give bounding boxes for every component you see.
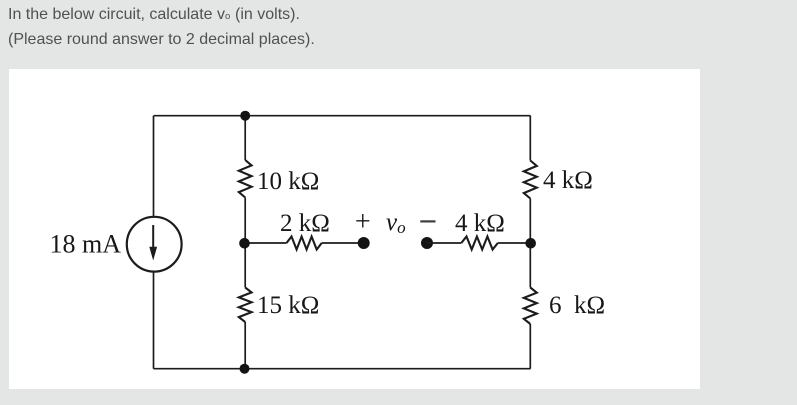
- node bottom junction: [240, 364, 250, 374]
- svg-text:6 kΩ: 6 kΩ: [549, 292, 605, 319]
- wire middle branch center: [244, 198, 246, 288]
- svg-text:18 mA: 18 mA: [50, 230, 122, 259]
- svg-text:15 kΩ: 15 kΩ: [257, 292, 319, 319]
- wire right branch center: [529, 199, 531, 288]
- svg-text:4 kΩ: 4 kΩ: [543, 167, 593, 194]
- wire middle branch lower: [244, 322, 246, 369]
- wire left upper: [153, 116, 155, 217]
- wire left lower: [153, 272, 155, 369]
- resistor R4 6 kΩ: [524, 288, 537, 325]
- wire node b to 4k: [427, 242, 461, 244]
- current source I1 18 mA: [127, 217, 182, 272]
- resistor R3 4 kΩ: [524, 161, 537, 199]
- wire top: [154, 115, 531, 117]
- wire middle branch upper: [244, 116, 246, 160]
- svg-text:vo: vo: [386, 209, 406, 237]
- label minus: [420, 220, 435, 222]
- node middle-left junction: [239, 238, 250, 249]
- svg-text:10 kΩ: 10 kΩ: [257, 168, 319, 195]
- resistor R1 10 kΩ: [239, 160, 252, 198]
- node middle-right junction: [525, 238, 536, 249]
- svg-text:2 kΩ: 2 kΩ: [280, 210, 330, 237]
- node b terminal: [421, 237, 433, 249]
- wire middle row left: [245, 242, 286, 244]
- wire 4k to right branch: [498, 242, 531, 244]
- resistor R6 4 kΩ: [461, 237, 498, 250]
- wire right branch lower: [529, 324, 531, 369]
- svg-text:4 kΩ: 4 kΩ: [455, 210, 505, 237]
- wire bottom: [154, 368, 531, 370]
- resistor R2 15 kΩ: [239, 288, 252, 323]
- wire 2k to node a: [322, 242, 364, 244]
- wire right branch upper: [529, 116, 531, 161]
- node a terminal: [358, 237, 370, 249]
- resistor R5 2 kΩ: [287, 237, 322, 250]
- node top junction: [240, 111, 250, 121]
- svg-text:+: +: [355, 207, 371, 238]
